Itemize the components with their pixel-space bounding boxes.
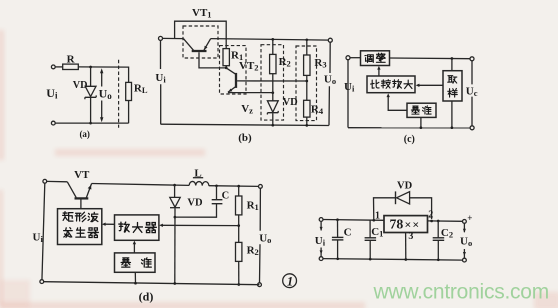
resistor RL bbox=[126, 82, 132, 123]
svg-text:Ui: Ui bbox=[33, 231, 44, 244]
node reference ground (d) bbox=[134, 282, 137, 285]
text 基准 (d) bbox=[121, 258, 130, 267]
svg-text:VD: VD bbox=[187, 197, 203, 208]
node C top bbox=[336, 218, 339, 221]
block 放大器 (amplifier) bbox=[115, 215, 159, 240]
node C top bbox=[215, 184, 218, 187]
svg-text:L: L bbox=[194, 167, 201, 179]
node VD top junction bbox=[89, 66, 92, 69]
node R2 bottom rail bbox=[237, 283, 240, 286]
svg-text:(d): (d) bbox=[139, 290, 154, 304]
wire right column (c) bbox=[471, 61, 473, 126]
wire reference to amplifier bbox=[387, 93, 408, 110]
svg-text:Uc: Uc bbox=[466, 85, 478, 98]
arrow Uo top bbox=[100, 68, 103, 86]
svg-text:1: 1 bbox=[287, 275, 293, 289]
node 1 (input pin) bbox=[372, 219, 375, 222]
wire loop Ui to R1 bbox=[175, 21, 227, 48]
arrow reference to amplifier bbox=[133, 241, 136, 253]
dashed box R1+VT2 bbox=[220, 46, 247, 94]
wire right column with polarity arrows bbox=[463, 223, 466, 258]
regulator IC 78xx box bbox=[384, 216, 428, 233]
wire left column (c) bbox=[347, 60, 349, 128]
wire top rail right (c) bbox=[390, 57, 470, 60]
svg-text:R1: R1 bbox=[247, 200, 259, 213]
block 比较放大 (compare amplify) bbox=[367, 76, 415, 93]
wire top rail left (c) bbox=[350, 57, 360, 59]
transistor VT2 bbox=[226, 68, 307, 93]
wire VT emitter to L bbox=[92, 184, 190, 186]
resistor R1 (b) bbox=[223, 49, 229, 68]
node VD/C link bbox=[174, 216, 177, 219]
svg-text:C: C bbox=[344, 226, 352, 238]
text 基准 (c) bbox=[411, 106, 419, 114]
svg-text:VT1: VT1 bbox=[192, 7, 212, 20]
wire VD to C bottom bbox=[175, 204, 217, 218]
transistor VT1 bbox=[183, 39, 226, 68]
terminal Ui+ (d) bbox=[43, 179, 47, 183]
resistor R2 bbox=[270, 39, 276, 100]
terminal Uo+ (e) bbox=[463, 220, 467, 224]
wire VD loop bbox=[374, 198, 432, 220]
terminal Uc- (c) bbox=[470, 126, 474, 130]
block 调整 (adjust) bbox=[361, 51, 390, 66]
wire bottom rail (d) bbox=[44, 282, 260, 285]
node VD top (d) bbox=[173, 184, 176, 187]
svg-text:(b): (b) bbox=[238, 132, 252, 144]
zener diode VD (a) bbox=[85, 67, 96, 123]
arrow amplifier to generator bbox=[102, 223, 115, 226]
node VD ground bbox=[173, 282, 176, 285]
resistor R3 bbox=[304, 40, 310, 101]
pin 3 stem bbox=[405, 233, 407, 260]
transistor VT (d) bbox=[67, 182, 91, 209]
arrow sampling to amplifier bbox=[416, 84, 443, 87]
svg-text:RL: RL bbox=[134, 83, 148, 96]
text 发生器 bbox=[64, 228, 73, 238]
svg-text:R: R bbox=[67, 53, 76, 65]
node C2 bottom bbox=[437, 258, 440, 261]
svg-text:78××: 78×× bbox=[390, 216, 420, 231]
terminal Uo+ (b) bbox=[328, 38, 332, 42]
wire top rail left (e) bbox=[323, 219, 384, 222]
wire sampling top stem bbox=[451, 59, 453, 71]
block 取样 (sampling) bbox=[443, 71, 462, 101]
resistor R1 (d) bbox=[236, 186, 242, 242]
svg-text:(a): (a) bbox=[79, 129, 90, 139]
svg-text:Uo: Uo bbox=[259, 233, 271, 246]
node sampling top bbox=[451, 57, 454, 60]
dashed box R3+R4 bbox=[296, 46, 317, 121]
terminal Ui+ (c) bbox=[346, 56, 350, 60]
node R1 top bbox=[237, 185, 240, 188]
svg-text:VD: VD bbox=[73, 80, 88, 91]
node VT2 emitter / Vz bbox=[271, 91, 274, 94]
node C2 top bbox=[437, 220, 440, 223]
svg-text:(c): (c) bbox=[404, 134, 415, 145]
diode VD (e) bbox=[396, 191, 410, 204]
marker circled 1 bbox=[283, 274, 297, 289]
capacitor C (d) bbox=[212, 186, 223, 204]
inductor L bbox=[189, 181, 209, 185]
terminal Ui+ (e) bbox=[319, 218, 323, 222]
load boundary dashed line bbox=[118, 60, 120, 128]
wire input rail (b) bbox=[163, 37, 184, 39]
wire right column (d) bbox=[259, 188, 262, 282]
node R2 top bbox=[271, 38, 274, 41]
resistor R4 bbox=[304, 100, 310, 125]
wire top rail right (e) bbox=[428, 220, 463, 222]
svg-text:R4: R4 bbox=[311, 103, 324, 116]
svg-text:Ui: Ui bbox=[315, 235, 326, 248]
wire R to RL top bbox=[78, 67, 128, 83]
terminal Ui- (e) bbox=[319, 257, 323, 261]
node sampling bottom rail bbox=[451, 126, 454, 129]
circuit (b): series transistor regulator bbox=[159, 21, 333, 127]
svg-text:Ui: Ui bbox=[344, 81, 355, 94]
circuit (d): switching regulator block diagram bbox=[40, 178, 262, 287]
node R4 bottom rail bbox=[305, 124, 308, 127]
text 调整 bbox=[365, 55, 373, 63]
svg-text:Ui: Ui bbox=[155, 72, 166, 85]
node C1 bottom bbox=[369, 258, 372, 261]
node R3 top bbox=[305, 38, 308, 41]
wire bottom rail (c) bbox=[348, 127, 470, 129]
svg-text:R3: R3 bbox=[314, 57, 326, 70]
node pin3 bottom bbox=[404, 258, 407, 261]
dashed box R2+VD bbox=[261, 45, 284, 120]
wire terminal to R bbox=[55, 66, 62, 68]
svg-text:www.cntronics.com: www.cntronics.com bbox=[373, 281, 549, 304]
svg-text:Uo: Uo bbox=[460, 235, 472, 248]
circuit (c): regulator block diagram bbox=[346, 51, 474, 130]
svg-text:VD: VD bbox=[397, 180, 413, 191]
node reference bottom rail bbox=[420, 126, 423, 129]
svg-text:C2: C2 bbox=[441, 227, 453, 240]
node 2 (output pin) bbox=[430, 220, 433, 223]
wire rail to VT bbox=[47, 180, 68, 182]
bottom wire (a) bbox=[55, 122, 128, 124]
wire left column with polarity arrows bbox=[320, 221, 323, 256]
arrow Uo bottom bbox=[100, 101, 103, 123]
block 基准 (reference) (c) bbox=[407, 103, 436, 117]
terminal Uo- (e) bbox=[463, 258, 467, 262]
text 取样 bbox=[448, 76, 457, 83]
text 比较放大 bbox=[371, 80, 380, 88]
zener diode VD (b) bbox=[267, 101, 278, 125]
svg-text:3: 3 bbox=[408, 231, 413, 242]
terminal Uo- (d) bbox=[258, 283, 262, 287]
svg-text:VT2: VT2 bbox=[239, 60, 259, 73]
svg-text:R2: R2 bbox=[279, 56, 291, 69]
wire reference bottom stem bbox=[420, 117, 422, 127]
svg-text:VD: VD bbox=[283, 97, 299, 108]
terminal Ui- (a) bbox=[51, 121, 55, 125]
resistor R bbox=[63, 64, 79, 69]
svg-text:Uo: Uo bbox=[324, 74, 336, 87]
svg-text:Vz: Vz bbox=[241, 103, 253, 116]
svg-text:C1: C1 bbox=[371, 226, 383, 239]
svg-text:R2: R2 bbox=[247, 245, 259, 258]
wire right column (b) bbox=[329, 42, 330, 125]
wire feedback to amplifier bbox=[159, 224, 239, 227]
svg-text:VT: VT bbox=[74, 169, 90, 181]
wire sampling bottom stem bbox=[451, 101, 453, 128]
wire left column (d) bbox=[42, 183, 45, 281]
node divider R3/R4 bbox=[305, 80, 308, 83]
terminal Ui- (d) bbox=[40, 280, 44, 284]
svg-text:C: C bbox=[222, 191, 230, 202]
wire L to output terminal bbox=[209, 185, 258, 188]
block 基准 (reference) (d) bbox=[115, 253, 156, 272]
text 放大器 bbox=[119, 222, 129, 232]
terminal Uc+ (c) bbox=[470, 57, 474, 61]
text 矩形波 bbox=[63, 212, 73, 221]
block 矩形波发生器 (square wave generator) bbox=[58, 209, 102, 245]
svg-text:2: 2 bbox=[428, 210, 433, 221]
dashed box VT1 bbox=[183, 26, 218, 58]
label L underline bbox=[193, 177, 203, 179]
wire bottom rail (b) bbox=[161, 124, 329, 125]
svg-text:+: + bbox=[467, 213, 472, 223]
arrow amplifier to adjust bbox=[377, 66, 380, 76]
node feedback R1/R2 bbox=[237, 224, 240, 227]
terminal Ui+ (a) bbox=[51, 65, 55, 69]
circuit (a): zener shunt regulator bbox=[51, 60, 131, 128]
capacitor C1 bbox=[365, 220, 377, 259]
terminal Uo+ (d) bbox=[259, 185, 263, 189]
svg-text:1: 1 bbox=[375, 210, 380, 221]
diode VD (d) bbox=[170, 185, 180, 283]
node C bottom bbox=[336, 257, 339, 260]
terminal Ui+ (b) bbox=[159, 36, 163, 40]
wire top rail (b) bbox=[211, 39, 331, 41]
capacitor C (e) bbox=[332, 220, 344, 259]
circuit (e): 78xx three-terminal regulator bbox=[319, 191, 466, 262]
node VD bottom rail bbox=[271, 124, 274, 127]
node R1/VT1 base/VT2 collector bbox=[225, 67, 228, 70]
resistor R2 (d) bbox=[236, 242, 242, 284]
wire reference bottom stem (d) bbox=[134, 272, 136, 283]
wire bottom rail (e) bbox=[323, 259, 463, 261]
wire left column (b) bbox=[160, 41, 162, 125]
capacitor C2 bbox=[433, 221, 445, 260]
